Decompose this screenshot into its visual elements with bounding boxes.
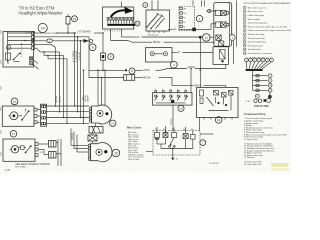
node 9 callout in fuse box	[6, 45, 10, 49]
ground cluster	[246, 92, 272, 103]
node 17 callout	[10, 131, 17, 138]
node 16 callout	[11, 98, 18, 105]
ground pin with X at fuse box corner	[30, 57, 39, 69]
svg-text:Permanent joint: Permanent joint	[248, 44, 263, 47]
wire RT from switch to connector	[168, 24, 216, 32]
connector pins with labels	[180, 7, 186, 28]
node 10 callout	[135, 21, 140, 26]
wire bus row 5 inside fuse box	[8, 47, 32, 49]
svg-text:RT/GN: RT/GN	[171, 118, 173, 125]
svg-text:Round inline plug: Round inline plug	[248, 34, 265, 36]
svg-text:3: 3	[244, 15, 245, 17]
washer pump switch arm	[25, 145, 32, 153]
scan edge marks	[0, 30, 1, 156]
svg-text:9: 9	[244, 38, 245, 40]
intensive pump switch arm	[21, 109, 29, 121]
svg-text:VI/SW: VI/SW	[143, 70, 150, 72]
fuse F15	[66, 14, 70, 34]
pin row 11	[253, 88, 273, 92]
svg-text:13: 13	[111, 121, 115, 125]
wire bus row 2 inside fuse box	[8, 36, 32, 38]
relay resistor 5	[191, 131, 196, 149]
svg-text:Power connection (for engine c: Power connection (for engine connectors …	[248, 29, 291, 32]
svg-text:86: 86	[163, 129, 165, 131]
washer connector upper	[49, 141, 57, 148]
wire bus row 3 inside fuse box	[8, 40, 32, 42]
relay detail top feed stubs	[157, 126, 186, 134]
svg-text:SW/GN: SW/GN	[56, 95, 58, 103]
wiper motor connector block	[89, 124, 103, 133]
washer pump pins	[35, 143, 38, 157]
svg-text:1: 1	[244, 7, 245, 9]
node 1 callout	[229, 35, 235, 41]
washer reservoir box	[213, 47, 228, 69]
svg-text:GR/WS RT/WS: GR/WS RT/WS	[44, 33, 59, 35]
svg-text:16: 16	[13, 100, 17, 104]
svg-text:Ground point in connector: Ground point in connector	[248, 52, 273, 55]
title text	[19, 6, 64, 16]
wire drop between blocks	[200, 70, 202, 88]
wiper motor M	[91, 143, 113, 162]
svg-text:19 Outlet plate 78a: 19 Outlet plate 78a	[244, 163, 262, 166]
svg-text:31: 31	[176, 159, 178, 161]
svg-text:Cable code point: Cable code point	[248, 14, 264, 17]
washer pump wires to connectors	[38, 144, 49, 155]
svg-text:Headlight Wiper/Washer: Headlight Wiper/Washer	[19, 11, 64, 16]
svg-text:11: 11	[269, 90, 271, 92]
control unit box right	[197, 88, 239, 118]
relay box R1 (wiper relay plate)	[103, 7, 134, 29]
junction dots in fuse box	[21, 40, 26, 45]
wire colors rows	[128, 132, 144, 161]
node 14 callout	[38, 23, 47, 32]
svg-text:56: 56	[183, 22, 185, 24]
svg-text:GN/WS: GN/WS	[60, 95, 62, 103]
svg-text:0.75 BL/SW: 0.75 BL/SW	[76, 51, 78, 62]
svg-text:53e: 53e	[183, 13, 186, 15]
svg-text:0.75 SW/WS: 0.75 SW/WS	[77, 30, 91, 33]
red note text	[15, 163, 50, 169]
wire GR/WS row1 to relay box	[35, 30, 104, 35]
rotated wire labels left bundle	[56, 95, 62, 103]
wire bus row 4 inside fuse box	[8, 43, 32, 45]
svg-text:53: 53	[183, 17, 185, 19]
svg-text:Round fusible plug: Round fusible plug	[248, 42, 267, 44]
node 8 callout	[108, 54, 114, 60]
svg-text:14: 14	[41, 27, 45, 31]
motor1 harness vertical 2	[101, 77, 103, 105]
node 13 callout motor1	[110, 120, 116, 126]
dashed link in fuse box	[21, 45, 23, 58]
motor1 harness vertical 1	[97, 70, 99, 106]
svg-text:GN/WS: GN/WS	[87, 94, 89, 102]
terminal pins on fuse box right edge	[32, 32, 35, 50]
switch block top pins	[155, 91, 187, 93]
legend rows	[243, 6, 291, 55]
svg-text:Thermostatic plug: Thermostatic plug	[248, 37, 266, 40]
wiper motor pins	[88, 144, 90, 160]
svg-text:6: 6	[185, 89, 186, 91]
svg-text:BR: BR	[82, 97, 84, 100]
svg-text:17 Grounds: 17 Grounds	[244, 156, 255, 159]
svg-text:Wire number: Wire number	[248, 19, 261, 21]
relay coil 2	[163, 131, 168, 144]
fuse box (power distribution box)	[3, 32, 35, 68]
component key rows	[244, 117, 287, 166]
connector cell row 2	[215, 22, 229, 27]
wiper motor feed wire 2	[77, 36, 79, 112]
bullet connector into block	[202, 1, 217, 13]
vertical wire to connector pin A	[47, 47, 90, 106]
wire R1 main feed	[122, 29, 214, 70]
relay coil in fuse box	[6, 53, 11, 64]
svg-text:SW/GN: SW/GN	[72, 132, 74, 140]
pin row 9	[253, 79, 273, 83]
relay wire exit right	[200, 133, 214, 135]
block side wire	[236, 1, 238, 47]
vertical wire to connector pin C	[47, 55, 90, 118]
svg-text:Terminal designation: Terminal designation	[248, 22, 268, 25]
wire row4 routing down	[35, 44, 68, 59]
node 13 callout	[203, 34, 211, 42]
svg-text:87: 87	[172, 129, 174, 131]
svg-text:Basic wire color: Basic wire color	[248, 11, 263, 13]
svg-text:30: 30	[183, 129, 185, 131]
intensive pump pins	[34, 108, 41, 123]
washer pump box	[3, 139, 35, 161]
pin row 10	[253, 84, 273, 88]
control unit bottom pins	[204, 118, 232, 120]
svg-text:6: 6	[244, 26, 245, 28]
bus drop wire	[252, 71, 254, 90]
svg-text:KEY NOTES FOR HEADLIGHT WIPER/: KEY NOTES FOR HEADLIGHT WIPER/WASHER WIR…	[244, 2, 291, 5]
relay detail pin labels	[155, 129, 194, 131]
relay box top feed wire	[121, 2, 123, 8]
svg-text:87654321: 87654321	[105, 31, 124, 33]
wire below node 1	[233, 40, 235, 64]
column switch connector box	[179, 1, 195, 31]
svg-text:10: 10	[269, 85, 271, 87]
relay internal bus	[157, 144, 193, 155]
svg-text:7: 7	[244, 30, 245, 32]
lower inline connector to motor2	[88, 133, 97, 143]
wire drop to wiper switch block	[0, 0, 1, 1]
svg-text:0.75 SW/GE: 0.75 SW/GE	[73, 50, 75, 62]
svg-text:11: 11	[244, 45, 246, 47]
wire BR/GA	[172, 78, 226, 88]
svg-text:NOT USED: NOT USED	[15, 166, 26, 168]
svg-text:85: 85	[155, 129, 157, 131]
svg-text:31b: 31b	[183, 8, 186, 10]
wire VI/SW horizontal run	[89, 37, 226, 93]
svg-text:FOR R1 AND: FOR R1 AND	[254, 105, 269, 108]
svg-text:4: 4	[244, 19, 245, 21]
wire from switch block down	[171, 105, 173, 130]
svg-text:11: 11	[205, 36, 209, 40]
svg-text:12: 12	[217, 118, 221, 122]
switch block pin numbers	[155, 89, 186, 91]
node 7 callout	[200, 140, 206, 146]
connector face view circles row	[244, 58, 273, 62]
main connector block C1	[214, 3, 232, 47]
svg-text:4: 4	[177, 89, 178, 91]
wire RT from level switch	[172, 52, 213, 54]
wiper switch block lower	[153, 93, 193, 105]
svg-text:6: 6	[92, 46, 94, 50]
svg-text:3a: 3a	[170, 89, 172, 91]
wiper motor feed wire 3	[80, 40, 82, 118]
node 12 callout	[215, 117, 222, 124]
node 6 callout	[89, 44, 96, 51]
svg-text:SEE REAR WINDOW WASHER: SEE REAR WINDOW WASHER	[15, 163, 50, 166]
svg-text:('78 thru '82 only): ('78 thru '82 only)	[251, 56, 266, 59]
control unit internals	[200, 90, 234, 111]
left wiper motor M1	[92, 105, 112, 124]
washer pump motor	[10, 146, 19, 153]
wire bus row 1 inside fuse box	[8, 32, 32, 34]
svg-text:BR/SW: BR/SW	[143, 77, 151, 79]
wiper motor feed wire 4	[83, 70, 85, 124]
relay box pins row	[107, 18, 133, 21]
washer pump component	[19, 146, 26, 150]
svg-text:3: 3	[155, 89, 156, 91]
switch block contacts	[155, 95, 189, 103]
svg-text:19: 19	[179, 106, 183, 110]
svg-text:2: 2	[244, 11, 245, 13]
svg-text:13: 13	[244, 53, 246, 55]
motor1 pins	[89, 108, 91, 123]
svg-text:10 Light switch: 10 Light switch	[244, 138, 258, 141]
fan wires to bus	[246, 62, 271, 69]
svg-text:BR/GN: BR/GN	[153, 42, 161, 44]
svg-text:5: 5	[162, 89, 163, 91]
node 2 callout	[196, 15, 202, 21]
node 4 callout	[170, 61, 177, 68]
node 3 callout	[143, 3, 148, 8]
svg-text:8: 8	[244, 34, 245, 36]
relay box bus bar	[107, 24, 135, 26]
intensive washer pump box	[2, 106, 34, 126]
relay coil 1	[155, 133, 160, 145]
connector cell row 1	[215, 10, 229, 15]
svg-text:1-78: 1-78	[5, 169, 10, 172]
wiper switch box	[146, 1, 170, 32]
relay box pin stubs below	[108, 20, 132, 24]
wiper motor feed wire 1	[74, 32, 76, 106]
wire BR/GN	[111, 29, 215, 44]
inline 4-pin connector	[41, 104, 47, 126]
relay coil 4	[183, 134, 188, 149]
svg-text:Standard joint: Standard joint	[248, 48, 262, 51]
svg-text:BR/GA: BR/GA	[194, 84, 202, 87]
intensive relay detail box	[153, 131, 200, 156]
intensive pump motor	[8, 112, 22, 120]
svg-text:GN: GN	[40, 152, 44, 154]
svg-text:Component Key: Component Key	[244, 112, 266, 116]
ctrl box to relay feed	[199, 118, 201, 131]
svg-text:10: 10	[244, 41, 246, 43]
vertical wire to connector pin D	[47, 59, 90, 124]
svg-text:87a: 87a	[191, 129, 194, 131]
wiper switch contacts	[146, 13, 164, 29]
relay wire entry left	[146, 151, 153, 153]
relay contact arm in fuse box	[13, 52, 21, 61]
node 15 callout	[72, 16, 78, 22]
node 5 callout	[129, 68, 135, 74]
washer connector tail wires	[56, 139, 61, 166]
svg-text:Power connection (right side,: Power connection (right side, circ 4.0 l…	[248, 25, 288, 28]
rotated wire labels motor bundle	[72, 50, 90, 140]
yellow watermark	[271, 163, 289, 171]
svg-text:31b 53a 53 56: 31b 53a 53 56	[148, 34, 159, 36]
vertical wire to connector pin B	[47, 52, 90, 113]
node 18 callout	[112, 149, 120, 157]
wiper switch bottom pins	[148, 17, 165, 37]
motor1 harness vertical 3	[104, 70, 106, 106]
svg-text:18: 18	[114, 151, 118, 155]
bold arrow inside relay box	[111, 7, 134, 17]
connector cell row 3	[216, 35, 224, 46]
pin row 8	[253, 74, 273, 78]
washer connector lower	[49, 152, 57, 159]
wire row2 with inline connector 6	[35, 36, 90, 38]
relay contact arm	[169, 133, 177, 148]
relay ground pin 31	[171, 155, 177, 161]
svg-text:15: 15	[73, 17, 77, 21]
node 19 callout	[178, 105, 184, 111]
svg-text:Wire Colors: Wire Colors	[127, 125, 142, 129]
svg-text:5: 5	[244, 22, 245, 24]
bus bar GR/WS	[246, 69, 263, 71]
svg-text:C10 36 007: C10 36 007	[209, 163, 219, 165]
wire row3 to bullet connector	[35, 39, 93, 43]
wire BR/SW horizontal run	[89, 75, 172, 81]
motor2 feed wires	[71, 129, 88, 153]
svg-text:ZN = 2-color: ZN = 2-color	[128, 158, 140, 161]
washer fluid level switch box	[146, 48, 173, 63]
svg-text:12: 12	[244, 49, 246, 51]
svg-text:31: 31	[183, 26, 185, 28]
svg-text:0.75 GN: 0.75 GN	[79, 52, 81, 60]
svg-text:Wire size in sq. mm: Wire size in sq. mm	[248, 7, 267, 9]
svg-text:17: 17	[12, 132, 16, 136]
svg-text:RT: RT	[174, 28, 178, 31]
inline fuse 8 on drop wire	[101, 32, 106, 70]
